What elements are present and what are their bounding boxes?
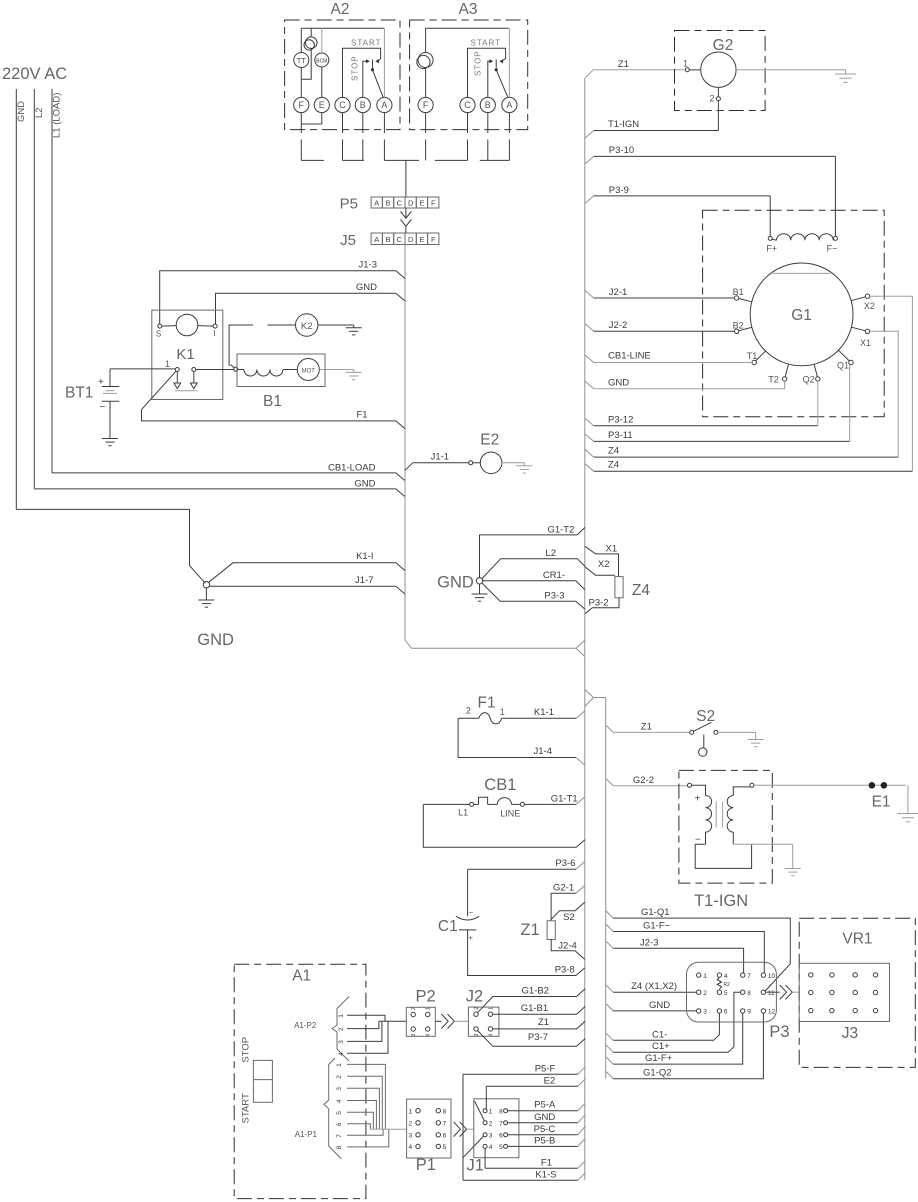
svg-text:GND: GND (534, 1112, 555, 1123)
svg-text:F: F (299, 100, 305, 110)
svg-text:VR1: VR1 (842, 930, 872, 947)
svg-text:CB1-LOAD: CB1-LOAD (328, 463, 376, 474)
svg-text:B1: B1 (733, 287, 744, 297)
svg-text:6: 6 (499, 1133, 503, 1140)
svg-text:8: 8 (499, 1109, 503, 1116)
svg-text:LINE: LINE (500, 808, 520, 818)
svg-text:F−: F− (827, 244, 838, 254)
svg-text:C: C (397, 199, 403, 208)
svg-text:K1-S: K1-S (535, 1169, 556, 1180)
svg-text:J2-1: J2-1 (609, 287, 627, 298)
svg-text:X1: X1 (860, 338, 871, 348)
svg-text:P3-6: P3-6 (555, 858, 575, 869)
svg-text:K2: K2 (301, 321, 313, 332)
svg-text:P1: P1 (416, 1156, 436, 1174)
svg-text:11: 11 (768, 990, 775, 997)
svg-text:GND: GND (608, 377, 629, 388)
svg-text:T1-IGN: T1-IGN (608, 119, 639, 130)
svg-text:1: 1 (165, 359, 170, 369)
svg-text:Q1: Q1 (837, 361, 849, 371)
svg-text:5: 5 (724, 990, 728, 997)
svg-text:J2-2: J2-2 (609, 320, 627, 331)
svg-text:K1-1: K1-1 (534, 707, 554, 718)
svg-text:2: 2 (409, 1121, 413, 1128)
svg-text:Z1: Z1 (641, 722, 652, 733)
svg-text:Z1: Z1 (538, 1017, 549, 1028)
svg-text:E: E (419, 199, 424, 208)
svg-text:J1-4: J1-4 (534, 746, 552, 757)
svg-text:P5-A: P5-A (534, 1100, 556, 1111)
svg-text:8: 8 (747, 990, 751, 997)
svg-text:X2: X2 (864, 301, 875, 311)
svg-text:B: B (386, 199, 391, 208)
svg-text:P5: P5 (340, 196, 358, 213)
svg-text:P3-11: P3-11 (608, 430, 633, 441)
svg-text:K1-I: K1-I (356, 551, 373, 562)
svg-text:4: 4 (409, 1144, 413, 1151)
svg-text:4: 4 (489, 1144, 493, 1151)
svg-text:B: B (360, 100, 366, 110)
svg-text:−: − (469, 908, 474, 917)
svg-text:6: 6 (336, 1122, 343, 1126)
svg-text:3: 3 (489, 1133, 493, 1140)
svg-text:1: 1 (409, 1109, 413, 1116)
svg-text:1: 1 (500, 707, 505, 717)
svg-text:G1-T2: G1-T2 (547, 524, 574, 535)
svg-text:+: + (468, 933, 473, 942)
svg-text:J1-1: J1-1 (431, 452, 449, 463)
svg-text:Z4: Z4 (608, 446, 619, 457)
svg-text:P3-9: P3-9 (609, 185, 629, 196)
svg-text:CB1-LINE: CB1-LINE (608, 351, 651, 362)
svg-text:G2-1: G2-1 (553, 883, 574, 894)
svg-text:G1-B2: G1-B2 (522, 985, 549, 996)
svg-text:G1: G1 (791, 307, 812, 324)
svg-text:3: 3 (409, 1133, 413, 1140)
svg-text:P2: P2 (416, 988, 436, 1006)
svg-text:6: 6 (724, 1009, 728, 1016)
svg-text:Q2: Q2 (803, 374, 815, 384)
svg-text:D: D (408, 199, 414, 208)
svg-text:X2: X2 (598, 559, 610, 570)
svg-text:G1-B1: G1-B1 (521, 1003, 548, 1014)
svg-text:J1-3: J1-3 (359, 259, 377, 270)
svg-text:3: 3 (703, 1009, 707, 1016)
svg-text:P3-12: P3-12 (608, 415, 633, 426)
svg-text:C: C (339, 100, 346, 110)
svg-text:G1-Q2: G1-Q2 (643, 1068, 672, 1079)
svg-text:L2: L2 (545, 548, 556, 559)
svg-text:G1-F+: G1-F+ (645, 1053, 673, 1064)
svg-text:5: 5 (336, 1111, 343, 1115)
svg-text:1: 1 (336, 1063, 343, 1067)
svg-text:K1: K1 (176, 346, 194, 363)
svg-text:A1: A1 (292, 968, 311, 985)
svg-text:5: 5 (443, 1144, 447, 1151)
svg-text:G1-F−: G1-F− (643, 921, 671, 932)
svg-text:12: 12 (768, 1009, 776, 1016)
svg-text:C1-: C1- (652, 1029, 667, 1040)
svg-text:L1: L1 (458, 807, 468, 817)
svg-text:S2: S2 (696, 708, 715, 725)
svg-text:2: 2 (474, 1007, 480, 1010)
svg-text:GND: GND (437, 573, 474, 591)
svg-text:L1 (LOAD): L1 (LOAD) (52, 93, 63, 138)
svg-text:4: 4 (489, 1033, 495, 1036)
svg-text:1: 1 (489, 1109, 493, 1116)
svg-text:START: START (351, 39, 381, 48)
svg-text:F: F (431, 235, 436, 244)
svg-text:4: 4 (426, 1034, 432, 1037)
svg-text:8: 8 (336, 1145, 343, 1149)
svg-text:G1-T1: G1-T1 (551, 793, 578, 804)
svg-text:BCM: BCM (316, 58, 327, 64)
svg-text:P5-F: P5-F (535, 1063, 556, 1074)
svg-text:+: + (98, 377, 104, 388)
svg-text:P3-3: P3-3 (544, 591, 564, 602)
svg-text:F1: F1 (357, 409, 368, 420)
svg-text:4: 4 (724, 973, 728, 980)
svg-text:Z4: Z4 (632, 582, 650, 599)
svg-text:Z4: Z4 (608, 460, 619, 471)
svg-text:J5: J5 (340, 232, 356, 249)
svg-text:A1-P1: A1-P1 (295, 1130, 318, 1139)
svg-text:10: 10 (768, 973, 776, 980)
svg-text:G2: G2 (713, 37, 734, 54)
svg-text:P3-8: P3-8 (555, 964, 575, 975)
svg-text:GND: GND (197, 631, 234, 649)
svg-text:STOP: STOP (474, 50, 483, 76)
svg-text:3: 3 (474, 1033, 480, 1036)
svg-text:4: 4 (336, 1099, 343, 1103)
svg-text:GND: GND (354, 479, 375, 490)
svg-text:1: 1 (683, 59, 688, 69)
svg-text:8: 8 (443, 1109, 447, 1116)
svg-text:E2: E2 (544, 1075, 556, 1086)
svg-text:7: 7 (747, 973, 751, 980)
svg-text:6: 6 (443, 1133, 447, 1140)
svg-text:D: D (408, 235, 414, 244)
svg-text:Z1: Z1 (618, 59, 629, 70)
svg-text:J1: J1 (467, 1156, 484, 1174)
svg-text:P3-10: P3-10 (609, 145, 634, 156)
svg-text:A1-P2: A1-P2 (294, 1021, 317, 1030)
svg-text:P3: P3 (769, 1023, 789, 1041)
svg-text:C1: C1 (438, 918, 458, 935)
svg-text:2: 2 (489, 1121, 493, 1128)
svg-text:TT: TT (297, 56, 307, 65)
svg-text:CB1: CB1 (484, 776, 516, 794)
svg-text:C1+: C1+ (652, 1041, 670, 1052)
svg-text:P5-C: P5-C (534, 1124, 556, 1135)
svg-text:2: 2 (336, 1075, 343, 1079)
svg-text:A: A (506, 100, 512, 110)
svg-text:J1-7: J1-7 (355, 575, 373, 586)
svg-text:CR1-: CR1- (543, 570, 565, 581)
svg-text:START: START (240, 1093, 251, 1123)
svg-text:3: 3 (411, 1034, 417, 1037)
svg-text:G2-2: G2-2 (633, 775, 654, 786)
svg-text:9: 9 (747, 1009, 751, 1016)
svg-text:A: A (374, 235, 379, 244)
svg-text:X1: X1 (606, 543, 618, 554)
svg-text:E: E (419, 235, 424, 244)
svg-text:G1-Q1: G1-Q1 (641, 907, 670, 918)
svg-text:F+: F+ (766, 244, 777, 254)
svg-text:F1: F1 (478, 695, 496, 712)
svg-text:P3-2: P3-2 (589, 598, 609, 609)
svg-text:A: A (374, 199, 379, 208)
svg-text:5: 5 (499, 1144, 503, 1151)
svg-text:2: 2 (338, 1027, 345, 1031)
svg-text:B2: B2 (733, 320, 744, 330)
svg-text:P3-7: P3-7 (528, 1032, 548, 1043)
svg-text:7: 7 (336, 1134, 343, 1138)
svg-text:1: 1 (426, 1007, 432, 1010)
svg-text:A2: A2 (331, 1, 350, 18)
svg-text:−: − (100, 402, 106, 413)
svg-text:START: START (471, 39, 501, 48)
svg-text:3: 3 (338, 1040, 345, 1044)
svg-text:B1: B1 (263, 393, 282, 410)
svg-text:J3: J3 (842, 1025, 858, 1042)
svg-text:E1: E1 (872, 793, 891, 810)
svg-text:T1-IGN: T1-IGN (694, 892, 748, 910)
svg-text:1: 1 (338, 1014, 345, 1018)
svg-text:STOP: STOP (351, 55, 360, 81)
svg-text:A3: A3 (459, 1, 478, 18)
svg-text:2: 2 (709, 94, 714, 104)
svg-text:E2: E2 (480, 431, 499, 448)
svg-text:L2: L2 (34, 107, 45, 118)
svg-text:P5-B: P5-B (534, 1135, 555, 1146)
svg-text:STOP: STOP (240, 1037, 251, 1063)
svg-text:B: B (386, 235, 391, 244)
svg-text:GND: GND (649, 1000, 670, 1011)
svg-text:7: 7 (443, 1121, 447, 1128)
svg-text:J2: J2 (466, 988, 483, 1006)
svg-text:MOT: MOT (302, 369, 316, 375)
svg-text:T1: T1 (747, 351, 758, 361)
svg-text:+: + (695, 794, 701, 805)
svg-text:2: 2 (411, 1007, 417, 1010)
svg-text:Z4 (X1,X2): Z4 (X1,X2) (631, 981, 677, 992)
svg-text:C: C (397, 235, 403, 244)
svg-text:220V AC: 220V AC (2, 65, 67, 83)
svg-text:2: 2 (466, 706, 471, 716)
svg-text:BT1: BT1 (65, 385, 93, 402)
svg-text:A: A (381, 100, 387, 110)
svg-text:2: 2 (703, 990, 707, 997)
svg-text:T2: T2 (768, 374, 779, 384)
svg-text:F: F (423, 100, 429, 110)
svg-text:GND: GND (16, 101, 27, 122)
svg-text:F: F (431, 199, 436, 208)
svg-text:GND: GND (356, 282, 377, 293)
svg-text:3: 3 (336, 1087, 343, 1091)
svg-text:I: I (213, 329, 215, 338)
svg-text:1: 1 (703, 973, 707, 980)
svg-text:S: S (156, 330, 161, 339)
svg-text:E: E (319, 100, 325, 110)
svg-text:1: 1 (489, 1007, 495, 1010)
svg-text:F1: F1 (541, 1157, 552, 1168)
svg-text:J2-4: J2-4 (558, 940, 576, 951)
svg-text:4: 4 (338, 1052, 345, 1056)
svg-text:C: C (464, 100, 471, 110)
svg-text:B: B (485, 100, 491, 110)
svg-text:S2: S2 (563, 912, 575, 923)
svg-text:J2-3: J2-3 (640, 937, 658, 948)
svg-text:R2: R2 (724, 982, 731, 988)
svg-text:Z1: Z1 (520, 921, 539, 939)
svg-text:7: 7 (499, 1121, 503, 1128)
